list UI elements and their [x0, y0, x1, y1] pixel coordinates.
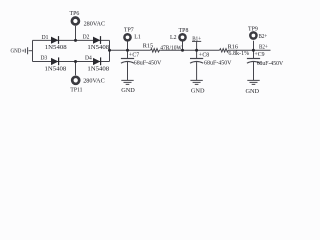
resistor R15 zigzag — [151, 49, 161, 52]
ground symbol under C9 — [247, 80, 259, 84]
wire C9 to ground — [253, 62, 255, 80]
svg-text:1N5408: 1N5408 — [87, 65, 109, 72]
wire TP6 stub — [75, 26, 77, 40]
svg-text:1N5408: 1N5408 — [45, 65, 67, 72]
wire top rail — [33, 39, 110, 41]
svg-text:D4: D4 — [85, 55, 92, 62]
wire main bus — [110, 49, 271, 51]
wire B1+ stub to bus to C8 — [196, 41, 198, 58]
wire TP8 stub — [182, 41, 184, 50]
svg-text:6.8k-1%: 6.8k-1% — [228, 50, 249, 57]
svg-text:TP9: TP9 — [248, 26, 258, 33]
wire bottom rail — [33, 61, 110, 63]
test point TP6 circle — [72, 18, 79, 25]
test point TP11 circle — [72, 77, 79, 84]
wire ground stub left — [29, 50, 33, 52]
svg-text:R15: R15 — [143, 43, 153, 50]
svg-text:68uF-450V: 68uF-450V — [257, 60, 284, 67]
svg-text:GND: GND — [121, 87, 135, 94]
svg-text:280VAC: 280VAC — [83, 77, 105, 84]
wire TP11 stub — [75, 62, 77, 76]
junction node B1+/C8 bus — [195, 49, 198, 52]
svg-text:TP6: TP6 — [70, 10, 80, 17]
net label B1+ underline bar — [192, 40, 201, 42]
svg-text:TP11: TP11 — [70, 86, 82, 93]
diode D3 — [51, 58, 58, 65]
svg-text:L1: L1 — [134, 34, 141, 41]
svg-text:GND: GND — [246, 88, 260, 95]
svg-text:GND: GND — [11, 47, 22, 54]
junction node TP9/C9 bus — [252, 49, 255, 52]
capacitor C9 plates — [247, 58, 260, 60]
svg-text:1N5408: 1N5408 — [87, 44, 109, 51]
junction node TP8 bus — [181, 49, 184, 52]
wire C7 to ground — [127, 62, 129, 80]
svg-text:68uF-450V: 68uF-450V — [204, 59, 232, 66]
ground symbol under C8 — [190, 80, 202, 84]
test point TP9 circle — [250, 32, 256, 38]
svg-text:B2+: B2+ — [259, 44, 268, 51]
wire C8 to ground — [196, 62, 198, 80]
diode D1 — [51, 37, 58, 44]
svg-text:C7: C7 — [132, 52, 139, 59]
diode D2 — [93, 37, 100, 44]
wire TP7 to bus to C7 — [127, 41, 129, 58]
junction node at TP11 / bottom rail — [74, 60, 77, 63]
svg-text:TP8: TP8 — [179, 27, 189, 34]
wire TP9 stub to bus to C9 — [253, 41, 255, 59]
svg-text:D2: D2 — [83, 34, 90, 41]
svg-text:280VAC: 280VAC — [84, 21, 106, 28]
junction node bridge output — [108, 49, 111, 52]
capacitor C7 plates — [121, 58, 134, 60]
svg-text:C9: C9 — [258, 51, 265, 58]
test point TP7 circle — [124, 34, 130, 40]
svg-text:GND: GND — [191, 88, 205, 95]
svg-text:B1+: B1+ — [192, 35, 201, 42]
svg-text:TP7: TP7 — [124, 27, 134, 34]
ground symbol under C7 — [121, 80, 133, 84]
svg-text:L2: L2 — [170, 34, 177, 41]
diode D4 — [93, 58, 100, 65]
wire left vertical — [32, 40, 34, 61]
capacitor C8 plates — [190, 58, 203, 60]
junction node TP7/C7 bus — [126, 49, 129, 52]
test point TP8 circle — [179, 34, 185, 40]
ground earth symbol left — [23, 47, 28, 54]
svg-text:D1: D1 — [42, 34, 49, 41]
svg-text:D3: D3 — [41, 55, 48, 62]
svg-text:68uF-450V: 68uF-450V — [134, 59, 162, 66]
svg-text:B2+: B2+ — [259, 33, 268, 40]
svg-text:C8: C8 — [202, 52, 209, 59]
svg-text:47R/10W: 47R/10W — [160, 44, 182, 51]
resistor R16 zigzag — [220, 49, 230, 52]
svg-text:1N5408: 1N5408 — [45, 44, 67, 51]
junction node at TP6 / top rail — [74, 39, 77, 42]
wire right vertical (bridge output) — [109, 40, 111, 61]
